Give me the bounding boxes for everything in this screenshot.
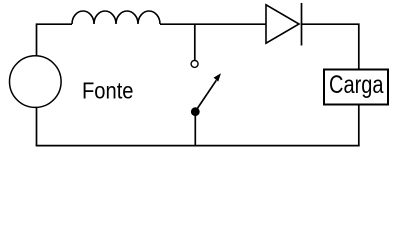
wire: inductor to diode anode	[160, 23, 266, 25]
wire: source top lead to inductor	[37, 24, 73, 56]
wire: bottom rail	[36, 145, 360, 147]
wire: source bottom lead	[36, 108, 38, 146]
inductor L1	[72, 11, 160, 24]
voltage source circle	[10, 56, 62, 108]
switch S1 open terminal	[191, 60, 198, 67]
switch S1 blade	[195, 80, 216, 111]
switch S1 blade arrowhead	[214, 73, 221, 81]
switch S1 pivot junction dot	[191, 107, 200, 116]
load Carga box	[324, 70, 388, 105]
diode D1 triangle	[266, 5, 299, 43]
wire: switch upper lead	[194, 24, 196, 60]
wire: switch lower lead	[194, 112, 196, 146]
wire: load bottom lead to bottom rail	[358, 105, 360, 146]
svg-text:Fonte: Fonte	[82, 78, 134, 104]
wire: diode cathode to load top	[302, 24, 359, 69]
svg-text:Carga: Carga	[329, 71, 384, 99]
diode D1 cathode bar	[301, 3, 303, 46]
